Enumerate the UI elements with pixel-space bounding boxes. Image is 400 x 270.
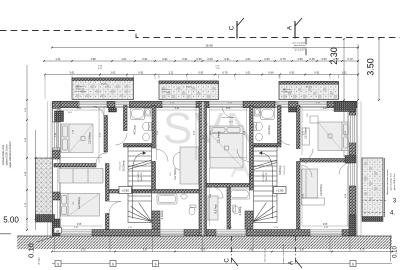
svg-text:de talpa: de talpa (38, 256, 41, 265)
bath2 fixtures (right unit top) (254, 108, 275, 141)
svg-text:50x50x3.5: 50x50x3.5 (283, 92, 292, 94)
svg-text:0.66: 0.66 (297, 57, 303, 61)
svg-text:1.01: 1.01 (110, 71, 116, 75)
svg-text:0.45: 0.45 (309, 57, 315, 61)
svg-text:10.50mp: 10.50mp (122, 160, 126, 171)
svg-text:0.66: 0.66 (268, 71, 274, 75)
svg-text:1.01: 1.01 (245, 71, 251, 75)
svg-text:pe strat nisip: pe strat nisip (75, 90, 86, 93)
svg-text:+2.90: +2.90 (122, 189, 130, 193)
door arc 9.37 (212, 187, 223, 198)
level box left (119, 187, 132, 194)
svg-text:1.01: 1.01 (245, 57, 251, 61)
room 9.37 furniture (208, 196, 218, 220)
svg-text:28x17.05: 28x17.05 (266, 172, 268, 182)
svg-text:1.77mp: 1.77mp (249, 172, 252, 181)
svg-text:12.09mp: 12.09mp (88, 132, 92, 144)
dresser 12.50 (302, 128, 310, 145)
door arcs right unit (300, 149, 313, 162)
door arc terrace T2 into 12.34 (222, 106, 234, 118)
svg-text:0.10: 0.10 (27, 243, 36, 258)
terrace corner ticks (72, 75, 339, 79)
section line A bottom (289, 236, 303, 268)
svg-text:10: 10 (56, 229, 60, 233)
svg-text:3.61: 3.61 (69, 71, 75, 75)
svg-text:0.10: 0.10 (393, 246, 399, 258)
svg-text:16.96: 16.96 (205, 44, 213, 48)
text block near marker A (293, 42, 308, 52)
bed bedroom2 (bottom-left) (61, 194, 100, 217)
window left wall (53, 122, 61, 148)
svg-text:-termoizolatie 2cm: -termoizolatie 2cm (390, 173, 393, 191)
living 13.72 table (173, 147, 199, 184)
bed room 12.34 (210, 126, 243, 168)
svg-text:0.91: 0.91 (182, 57, 188, 61)
svg-text:3.73: 3.73 (81, 248, 86, 251)
svg-text:1.21: 1.21 (168, 71, 174, 75)
corner blocks (349, 215, 356, 236)
dimension line second (top) (44, 60, 358, 62)
party wall (199, 102, 207, 237)
door arc bedroom1 (93, 106, 104, 117)
svg-text:0.91: 0.91 (142, 57, 148, 61)
svg-text:HOL+CS: HOL+CS (120, 161, 122, 170)
bottom bath left unit fixtures (157, 194, 196, 215)
svg-text:0.76: 0.76 (280, 57, 286, 61)
section line C bottom (225, 236, 239, 266)
wardrobe bedroom2 (59, 169, 103, 184)
svg-text:A: A (289, 261, 295, 265)
outer wall right: masonry + insulation (349, 102, 356, 237)
svg-text:12.02mp: 12.02mp (77, 197, 81, 209)
svg-text:0.72: 0.72 (347, 57, 353, 61)
witness lines (45, 76, 330, 100)
outer wall top base (53, 102, 358, 108)
svg-text:-placa OSB 1.0cm: -placa OSB 1.0cm (394, 173, 396, 191)
svg-text:2K-RL: 2K-RL (101, 84, 108, 86)
bath 4.12 right fixtures (230, 189, 250, 214)
vertical dim line right (357, 44, 359, 100)
svg-text:9: 9 (57, 262, 59, 266)
vertical dim 3.50 (378, 39, 380, 101)
door arc hall-12.34 right (237, 149, 250, 162)
svg-text:termoizolatie 2cm: termoizolatie 2cm (1, 145, 5, 165)
svg-text:0.91: 0.91 (198, 71, 204, 75)
svg-text:deasupra structura usoara: deasupra structura usoara (386, 168, 389, 194)
svg-text:A: A (287, 25, 294, 30)
entry steps tiled strip (left) (36, 158, 55, 222)
svg-text:3.61: 3.61 (323, 108, 328, 110)
svg-text:13.72mp: 13.72mp (173, 168, 177, 180)
svg-text:0.60: 0.60 (321, 57, 327, 61)
bottom dimension line 2 with boxes (52, 263, 392, 265)
section marker A (287, 18, 303, 39)
windows top wall (79, 102, 107, 108)
svg-text:9: 9 (112, 262, 114, 266)
svg-text:0.30: 0.30 (196, 57, 202, 61)
drop lines below building (55, 236, 391, 252)
svg-text:9: 9 (352, 262, 354, 266)
svg-text:4.: 4. (390, 211, 395, 217)
svg-text:0.91: 0.91 (289, 71, 295, 75)
watermark (163, 104, 259, 184)
svg-text:5.00: 5.00 (3, 216, 19, 225)
svg-text:2K-RL: 2K-RL (186, 87, 193, 89)
svg-text:1.98: 1.98 (90, 57, 96, 61)
labels 3 and 4 (362, 199, 397, 217)
svg-text:3.97: 3.97 (143, 248, 148, 251)
staircase left unit (128, 146, 152, 223)
bottom dimension line 1 (52, 251, 392, 253)
svg-text:+2.90: +2.90 (276, 189, 284, 193)
svg-text:9.86mp: 9.86mp (278, 165, 282, 175)
terrace T2 (0, 65, 399, 268)
bed bedroom1 (top-left) (61, 124, 93, 153)
nightstands 12.50 (310, 116, 318, 123)
svg-text:9: 9 (155, 262, 157, 266)
svg-text:17.5x28.5: 17.5x28.5 (138, 171, 140, 181)
T4 bottom cap (362, 217, 383, 222)
sofa room 12.07 (302, 169, 325, 205)
interior chains extra (57, 107, 348, 226)
interior walls left unit (104, 116, 108, 153)
interior dim chains (56, 107, 349, 226)
svg-text:C: C (225, 258, 231, 263)
svg-text:3.06: 3.06 (226, 108, 231, 110)
left wall hatched blocks (53, 102, 61, 109)
svg-text:0.91: 0.91 (162, 57, 168, 61)
svg-text:-sapa slab beton 8,6cm: -sapa slab beton 8,6cm (8, 142, 12, 169)
staircase right unit (254, 146, 278, 223)
svg-text:3.41: 3.41 (175, 108, 180, 110)
terrace T4 (right side) (362, 158, 385, 217)
svg-text:1.01: 1.01 (341, 71, 347, 75)
terrace T3 (0, 65, 399, 268)
svg-text:28x17.05: 28x17.05 (141, 172, 143, 182)
svg-text:0.76: 0.76 (222, 71, 228, 75)
svg-text:0.91: 0.91 (224, 57, 230, 61)
window right wall upper (349, 115, 356, 143)
svg-text:9.37mp: 9.37mp (214, 204, 218, 214)
svg-text:3.73: 3.73 (360, 248, 365, 251)
svg-text:50x50x3.5: 50x50x3.5 (162, 92, 171, 94)
svg-text:3.61: 3.61 (77, 108, 82, 110)
door arc bath1 (116, 133, 128, 145)
hall chimney blocks (109, 108, 117, 113)
svg-text:0.60: 0.60 (207, 57, 213, 61)
interior walls right unit (207, 184, 231, 188)
svg-text:3.73: 3.73 (201, 248, 206, 251)
top wall hatched segments (53, 102, 58, 108)
left vertical dim chain (26, 65, 28, 230)
section marker C (229, 18, 245, 39)
svg-text:-placa OSB 1.0cm: -placa OSB 1.0cm (5, 144, 9, 165)
svg-text:12.07mp: 12.07mp (319, 184, 323, 196)
divider junction block right (345, 156, 356, 164)
svg-text:0.91: 0.91 (138, 71, 144, 75)
dimension line overall (top) (52, 47, 358, 49)
door arc hall-living left (156, 149, 169, 162)
svg-text:C: C (229, 25, 236, 30)
terrace T1 (0, 65, 399, 268)
outer wall left: insulation + frame (48, 102, 51, 237)
boxed 10 (54, 228, 62, 234)
svg-text:2K-RL: 2K-RL (306, 87, 313, 89)
svg-text:incalzire in pardoseala: incalzire in pardoseala (283, 243, 285, 264)
outer wall bottom (53, 230, 357, 237)
svg-text:3.97: 3.97 (300, 248, 305, 251)
svg-text:0.66: 0.66 (264, 57, 270, 61)
bath1 fixtures (left unit top) (131, 108, 152, 141)
svg-text:4.03mp: 4.03mp (133, 125, 137, 135)
svg-text:HOL+CS: HOL+CS (284, 165, 286, 174)
svg-text:0.91: 0.91 (314, 71, 320, 75)
roof outline dashed (0, 31, 400, 57)
door right wall to terrace (349, 162, 356, 186)
svg-text:1.21: 1.21 (55, 57, 61, 61)
svg-text:17.5x28.5: 17.5x28.5 (263, 171, 265, 181)
svg-text:4.01mp: 4.01mp (267, 125, 271, 135)
svg-text:4.12mp: 4.12mp (160, 210, 164, 219)
svg-text:4.12mp: 4.12mp (238, 206, 242, 215)
svg-text:strat rupere cap.: strat rupere cap. (264, 247, 267, 262)
door arc bedroom2 (109, 202, 121, 214)
vertical dim 2.30 (343, 39, 345, 157)
svg-text:12.34mp: 12.34mp (217, 131, 221, 143)
svg-text:2.41: 2.41 (249, 248, 254, 251)
windows bottom wall (60, 230, 92, 237)
bed room 12.50 (318, 122, 349, 151)
svg-text:1.01: 1.01 (121, 57, 127, 61)
svg-text:3.50: 3.50 (366, 58, 376, 76)
dimension line third (top) (45, 74, 358, 76)
svg-text:2.30: 2.30 (329, 47, 339, 65)
ground hatch band (0, 234, 392, 249)
svg-text:gri antracit: gri antracit (295, 49, 305, 52)
